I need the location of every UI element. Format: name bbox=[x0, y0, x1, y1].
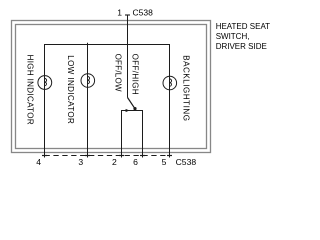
pin 5 terminal tick bbox=[167, 155, 172, 157]
wire LOW indicator column (bus to pin 3) bbox=[87, 45, 89, 158]
junction nub at bus / switch feed wire bbox=[127, 43, 129, 45]
svg-text:C538: C538 bbox=[133, 7, 154, 17]
svg-text:LOW INDICATOR: LOW INDICATOR bbox=[66, 55, 75, 124]
svg-text:3: 3 bbox=[78, 157, 83, 167]
svg-text:DRIVER SIDE: DRIVER SIDE bbox=[216, 42, 267, 51]
switch throw bracket (pins 2 and 6) bbox=[122, 111, 143, 158]
svg-text:C538: C538 bbox=[176, 157, 197, 167]
svg-text:6: 6 bbox=[133, 157, 138, 167]
svg-text:2: 2 bbox=[112, 157, 117, 167]
pin 1 terminal tick bbox=[125, 14, 130, 16]
pin 4 terminal tick bbox=[42, 155, 47, 157]
heated seat switch outer box bbox=[12, 21, 211, 153]
junction nub at bus / low indicator wire bbox=[87, 43, 89, 45]
wire pin1 down to switch common bbox=[127, 15, 129, 98]
switch travel arrow bbox=[126, 109, 130, 112]
svg-text:BACKLIGHTING: BACKLIGHTING bbox=[181, 55, 190, 121]
svg-text:HEATED SEAT: HEATED SEAT bbox=[216, 22, 270, 31]
svg-text:OFF/HIGH: OFF/HIGH bbox=[131, 54, 140, 95]
svg-text:OFF/LOW: OFF/LOW bbox=[114, 54, 123, 92]
switch blade bbox=[128, 98, 136, 110]
heated seat switch inner box bbox=[16, 25, 207, 149]
svg-text:5: 5 bbox=[162, 157, 167, 167]
lamp BACKLIGHTING bbox=[163, 76, 177, 90]
svg-text:4: 4 bbox=[36, 157, 41, 167]
svg-text:SWITCH,: SWITCH, bbox=[216, 32, 250, 41]
switch blade contact dot bbox=[133, 107, 136, 110]
bus wire with end drops to HIGH indicator and BACKLIGHTING columns bbox=[45, 45, 170, 158]
component title: HEATED SEAT SWITCH, DRIVER SIDE bbox=[216, 22, 270, 51]
pin 3 terminal tick bbox=[85, 155, 90, 157]
svg-text:1: 1 bbox=[117, 7, 122, 17]
pin 2 terminal tick bbox=[119, 155, 124, 157]
lamp HIGH indicator bbox=[38, 76, 52, 90]
svg-text:HIGH INDICATOR: HIGH INDICATOR bbox=[25, 55, 34, 125]
pin 6 terminal tick bbox=[140, 155, 145, 157]
connector C538 dashed line bbox=[45, 155, 170, 157]
lamp LOW indicator bbox=[81, 74, 95, 88]
